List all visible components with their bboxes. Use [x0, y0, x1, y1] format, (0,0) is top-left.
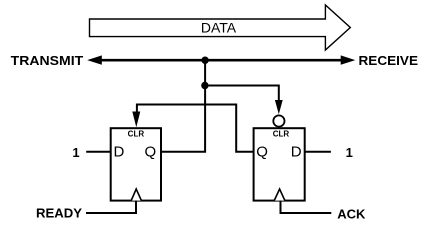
svg-text:Q: Q	[256, 143, 268, 160]
svg-text:D: D	[291, 143, 302, 160]
wire: READY to U1 clock	[86, 201, 136, 213]
svg-text:CLR: CLR	[128, 130, 145, 139]
svg-text:TRANSMIT: TRANSMIT	[11, 53, 84, 68]
inverter bubble on right flip-flop CLR	[273, 115, 284, 126]
wire: TRANSMIT/RECEIVE handshake line	[96, 59, 347, 62]
wire: branch from junction to right flip-flop clear	[205, 86, 279, 104]
arrowhead toward TRANSMIT	[87, 55, 102, 64]
svg-text:Q: Q	[145, 143, 157, 160]
wire: constant 1 to D input of U1	[86, 151, 111, 153]
svg-text:ACK: ACK	[337, 206, 366, 221]
flip-flop U1 body	[111, 128, 161, 200]
clock chevron (U1)	[131, 189, 141, 201]
svg-text:CLR: CLR	[273, 130, 290, 139]
clock chevron (U2)	[274, 189, 285, 201]
wire: left flip-flop Q output up to handshake line	[161, 60, 205, 152]
svg-text:READY: READY	[36, 206, 82, 221]
wire: right flip-flop Q output to left flip-flop clear	[137, 105, 254, 152]
svg-text:D: D	[114, 143, 125, 160]
wire: constant 1 to D input of U2	[305, 151, 331, 153]
arrowhead toward RECEIVE	[341, 55, 356, 64]
arrowhead into right flip-flop clear bubble	[275, 100, 283, 114]
node: junction dot feeding right flip-flop clear	[201, 82, 208, 89]
svg-text:1: 1	[346, 145, 353, 160]
svg-text:DATA: DATA	[201, 20, 237, 36]
arrowhead into left flip-flop CLR	[132, 112, 140, 128]
wire: ACK to U2 clock	[281, 201, 332, 213]
flip-flop U2 body	[254, 128, 305, 200]
node: junction dot on handshake line	[201, 57, 208, 64]
svg-text:RECEIVE: RECEIVE	[359, 53, 419, 68]
DATA bus block arrow	[90, 5, 351, 50]
svg-text:1: 1	[72, 145, 79, 160]
